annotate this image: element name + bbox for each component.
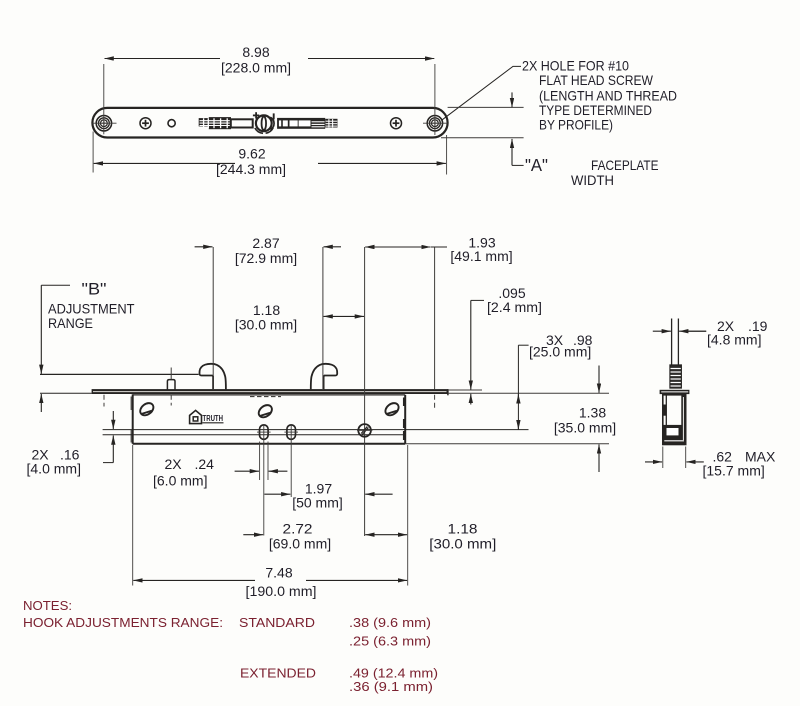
svg-text:STANDARD: STANDARD (239, 615, 315, 630)
svg-text:[4.8 mm]: [4.8 mm] (707, 332, 761, 348)
svg-text:[15.7 mm]: [15.7 mm] (703, 463, 765, 479)
svg-text:.38 (9.6 mm): .38 (9.6 mm) (349, 615, 431, 630)
svg-text:[6.0 mm]: [6.0 mm] (153, 473, 207, 489)
svg-text:[30.0 mm]: [30.0 mm] (235, 317, 297, 333)
svg-text:2.72: 2.72 (283, 521, 313, 537)
svg-text:1.38: 1.38 (579, 405, 606, 421)
svg-text:WIDTH: WIDTH (571, 172, 614, 188)
svg-text:HOOK ADJUSTMENTS RANGE:: HOOK ADJUSTMENTS RANGE: (23, 615, 223, 630)
svg-text:"A": "A" (525, 155, 548, 175)
svg-text:RANGE: RANGE (48, 315, 93, 331)
svg-text:8.98: 8.98 (242, 44, 269, 60)
svg-text:2X: 2X (165, 456, 183, 472)
svg-text:[72.9 mm]: [72.9 mm] (235, 250, 297, 266)
svg-text:TYPE DETERMINED: TYPE DETERMINED (539, 102, 652, 118)
svg-text:[69.0 mm]: [69.0 mm] (269, 536, 331, 552)
svg-text:[228.0 mm]: [228.0 mm] (221, 59, 291, 75)
svg-text:[30.0 mm]: [30.0 mm] (429, 536, 496, 552)
svg-text:.24: .24 (195, 456, 215, 472)
svg-text:[35.0 mm]: [35.0 mm] (554, 420, 616, 436)
svg-text:[49.1 mm]: [49.1 mm] (450, 248, 512, 264)
svg-text:[50 mm]: [50 mm] (292, 495, 343, 511)
svg-text:EXTENDED: EXTENDED (240, 666, 316, 681)
svg-text:"B": "B" (82, 280, 107, 299)
svg-text:9.62: 9.62 (238, 145, 265, 161)
svg-text:[4.0 mm]: [4.0 mm] (27, 461, 81, 477)
svg-text:1.18: 1.18 (448, 521, 478, 537)
svg-text:[2.4 mm]: [2.4 mm] (487, 299, 542, 315)
svg-text:7.48: 7.48 (265, 564, 292, 580)
svg-text:TRUTH: TRUTH (203, 414, 224, 423)
svg-text:.25 (6.3 mm): .25 (6.3 mm) (349, 634, 431, 649)
svg-text:2.87: 2.87 (252, 235, 279, 251)
svg-text:[244.3 mm]: [244.3 mm] (216, 161, 286, 177)
svg-text:[25.0 mm]: [25.0 mm] (529, 344, 591, 360)
svg-text:.36 (9.1 mm): .36 (9.1 mm) (349, 679, 433, 694)
svg-text:BY PROFILE): BY PROFILE) (539, 117, 613, 133)
svg-text:[190.0 mm]: [190.0 mm] (246, 583, 317, 599)
svg-text:FACEPLATE: FACEPLATE (591, 157, 659, 173)
svg-text:FLAT HEAD SCREW: FLAT HEAD SCREW (539, 72, 654, 88)
svg-text:NOTES:: NOTES: (23, 598, 72, 613)
